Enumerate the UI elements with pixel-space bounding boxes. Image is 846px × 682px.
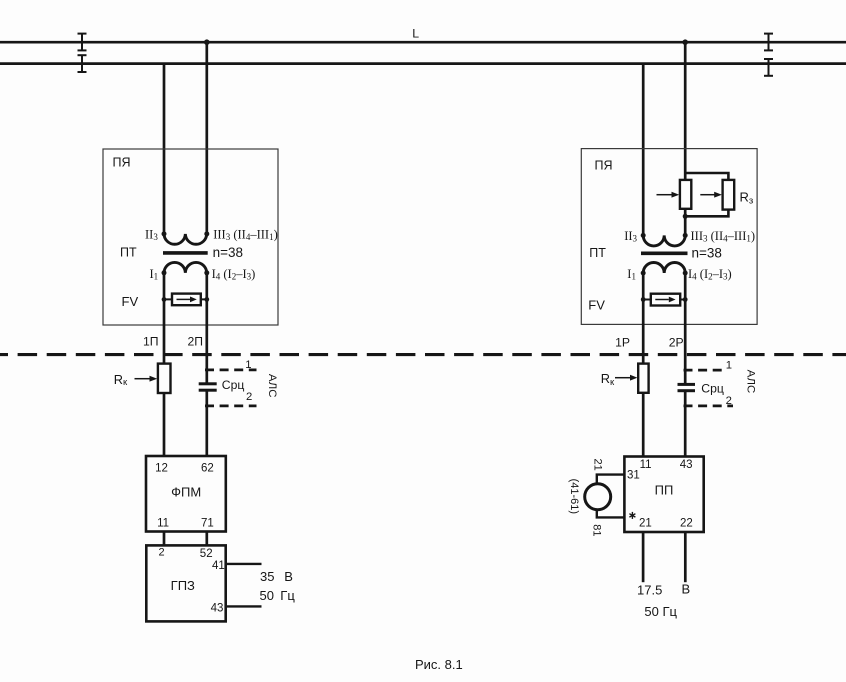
box ПП [624,457,703,533]
arrow to Rк (left) [135,378,150,380]
svg-text:21: 21 [639,518,652,530]
svg-text:43: 43 [211,603,224,615]
wire: R3 top branch [685,173,728,181]
transformer ПТ (right) core [641,252,688,256]
resistor R3 (inline element) [680,180,691,209]
svg-text:11: 11 [157,518,169,530]
svg-text:21: 21 [591,458,603,470]
wire: right leg from capacitor bottom plate to ФПМ pin 62 [205,390,208,456]
svg-text:L: L [412,26,419,40]
svg-text:1Р: 1Р [615,335,630,349]
junction dot on top conductor (left) [204,39,210,45]
transformer ПТ (right) primary winding [643,263,685,274]
terminal dot II3 (left) [162,231,167,236]
svg-text:12: 12 [155,463,168,475]
wire: overhead line L (top conductor) [0,41,846,44]
arrow to inline R3 element [657,194,672,196]
capacitor Срц (right) top plate [678,383,696,386]
box ГПЗ [146,545,225,621]
resistor R3 (parallel element) [723,180,735,210]
svg-text:I4 (I2–I3): I4 (I2–I3) [688,267,732,282]
svg-text:1: 1 [726,359,732,371]
wire: left leg I1 down to ФПМ pin 12 [163,273,166,456]
capacitor Срц (left) top plate [199,382,217,385]
svg-text:1П: 1П [143,335,159,349]
svg-text:FV: FV [588,298,605,313]
svg-text:Rз: Rз [740,190,754,207]
wire: dashed tap 1 to АЛС (right) [684,369,725,372]
svg-text:АЛС: АЛС [745,370,757,394]
wire: ГПЗ pin 41 output [226,563,262,565]
svg-text:III3 (II4–III1): III3 (II4–III1) [691,229,756,244]
asterisk mark at pin 21 [629,512,635,519]
svg-text:I1: I1 [627,267,636,282]
resistor Rк (right) body [638,364,648,393]
svg-text:II3: II3 [145,228,158,243]
arrester FV (right) bridge wire [643,299,685,301]
svg-text:22: 22 [680,518,693,530]
terminal dot I1 (left) [162,270,167,275]
resistor Rк (left) body [158,364,171,393]
wire: right leg from capacitor bottom plate to ПП pin 43 [684,390,687,457]
insulator (right, bottom conductor) [764,59,773,76]
arrester FV (right) body [651,294,680,306]
wire: ГПЗ pin 43 output [226,605,262,607]
arrester FV (right) arrow [655,299,669,301]
svg-text:(41-61): (41-61) [568,479,580,514]
svg-text:Гц: Гц [280,588,295,603]
junction dot FV right-unit right terminal [683,297,688,302]
terminal dot III3 (left) [204,231,209,236]
svg-text:62: 62 [201,463,214,475]
svg-text:41: 41 [212,560,225,572]
wire: ПП pin 21 output down [642,532,645,582]
arrester FV (left) bridge wire [164,298,207,300]
arrow to parallel R3 element [700,194,714,196]
wire: ПП pin 22 output down [684,532,687,582]
terminal dot III3 (right) [683,233,688,238]
capacitor Срц (right) bottom plate [678,389,696,392]
wire: ПП pin 31 to lamp top [597,475,625,483]
terminal dot I1 (right) [641,271,646,276]
arrester FV (left) body [172,294,201,306]
junction dot on top conductor (right) [682,39,688,45]
insulator (left, top conductor) [78,34,87,51]
svg-text:1: 1 [245,359,251,371]
svg-text:АЛС: АЛС [266,374,278,398]
wire: dashed station boundary line [0,353,846,356]
wire: right leg I4 down to capacitor top plate [205,273,208,384]
transformer ПТ (right) secondary winding [643,235,685,246]
wire: ФПМ pin 71 to ГПЗ pin 52 [205,532,208,546]
terminal dot I4 (left) [204,270,209,275]
svg-text:Срц: Срц [701,381,724,395]
wire: dashed tap 2 to АЛС (right) [684,405,734,408]
svg-text:ПТ: ПТ [589,246,606,260]
transformer ПТ (left) secondary winding [164,234,207,244]
junction dot R3 bottom branch [683,214,688,219]
arrow to Rк (right) [615,377,630,379]
wire: overhead line (bottom conductor) [0,62,846,65]
svg-text:71: 71 [201,518,214,530]
svg-text:Рис. 8.1: Рис. 8.1 [415,657,463,672]
svg-text:I4 (I2–I3): I4 (I2–I3) [212,267,256,282]
svg-text:n=38: n=38 [213,245,243,260]
wire: right drop from top conductor through R3 to winding terminal III3 [684,42,687,235]
wire: ФПМ pin 11 to ГПЗ pin 2 [163,532,166,546]
wire: ПП pin 21 to lamp bottom [597,511,625,518]
transformer ПТ (left) primary winding [164,262,207,272]
svg-text:Rк: Rк [114,372,128,388]
svg-text:ПЯ: ПЯ [595,158,613,172]
svg-text:Rк: Rк [601,371,615,388]
wire: dashed tap 2 to АЛС (left) [205,405,257,408]
svg-text:ПП: ПП [655,482,674,497]
arrester FV (left) arrow [177,298,191,300]
svg-text:2Р: 2Р [669,335,684,349]
wire: right drop from bottom conductor to winding terminal II3 [642,64,645,236]
svg-text:17.5: 17.5 [637,582,662,597]
svg-text:31: 31 [627,469,640,481]
svg-text:81: 81 [591,524,603,536]
terminal dot II3 (right) [641,233,646,238]
insulator (left, bottom conductor) [78,55,87,72]
svg-text:В: В [284,569,293,584]
box ПЯ (left cabinet) [103,149,278,325]
svg-text:50 Гц: 50 Гц [644,604,677,619]
lamp (41-61) circle [585,484,611,510]
svg-text:Срц: Срц [222,378,245,392]
svg-text:В: В [682,582,691,597]
junction dot FV right terminal [204,297,209,302]
svg-text:2П: 2П [187,335,203,349]
junction dot FV left terminal [162,297,167,302]
wire: left drop from top conductor to winding terminal III3 [205,42,208,234]
svg-text:ГПЗ: ГПЗ [171,578,195,593]
wire: R3 bottom branch [685,209,728,216]
svg-text:43: 43 [680,459,693,471]
svg-text:FV: FV [122,294,139,309]
wire: right leg I1 down to ПП pin 11 [642,273,645,457]
insulator (right, top conductor) [764,34,773,51]
svg-text:ПТ: ПТ [120,246,137,260]
transformer ПТ (left) core [163,251,208,255]
svg-text:35: 35 [260,569,274,584]
junction dot FV right-unit left terminal [641,297,646,302]
svg-text:II3: II3 [624,229,637,244]
wire: right leg I4 down to capacitor top plate [684,273,687,384]
svg-text:ПЯ: ПЯ [113,156,131,170]
terminal dot I4 (right) [683,271,688,276]
svg-text:11: 11 [640,459,652,471]
svg-text:III3 (II4–III1): III3 (II4–III1) [213,228,278,243]
box ФПМ [146,456,226,532]
svg-text:2: 2 [159,547,165,559]
svg-text:ФПМ: ФПМ [171,484,201,499]
wire: left drop from bottom conductor to winding terminal II3 [163,64,166,234]
svg-text:2: 2 [726,395,732,407]
svg-text:52: 52 [200,548,213,560]
svg-text:2: 2 [246,391,252,403]
svg-text:n=38: n=38 [692,245,722,260]
wire: dashed tap 1 to АЛС (left) [205,369,257,372]
capacitor Срц (left) bottom plate [199,389,217,392]
box ПЯ (right cabinet) [581,149,757,325]
svg-text:50: 50 [260,588,274,603]
svg-text:I1: I1 [150,267,159,282]
